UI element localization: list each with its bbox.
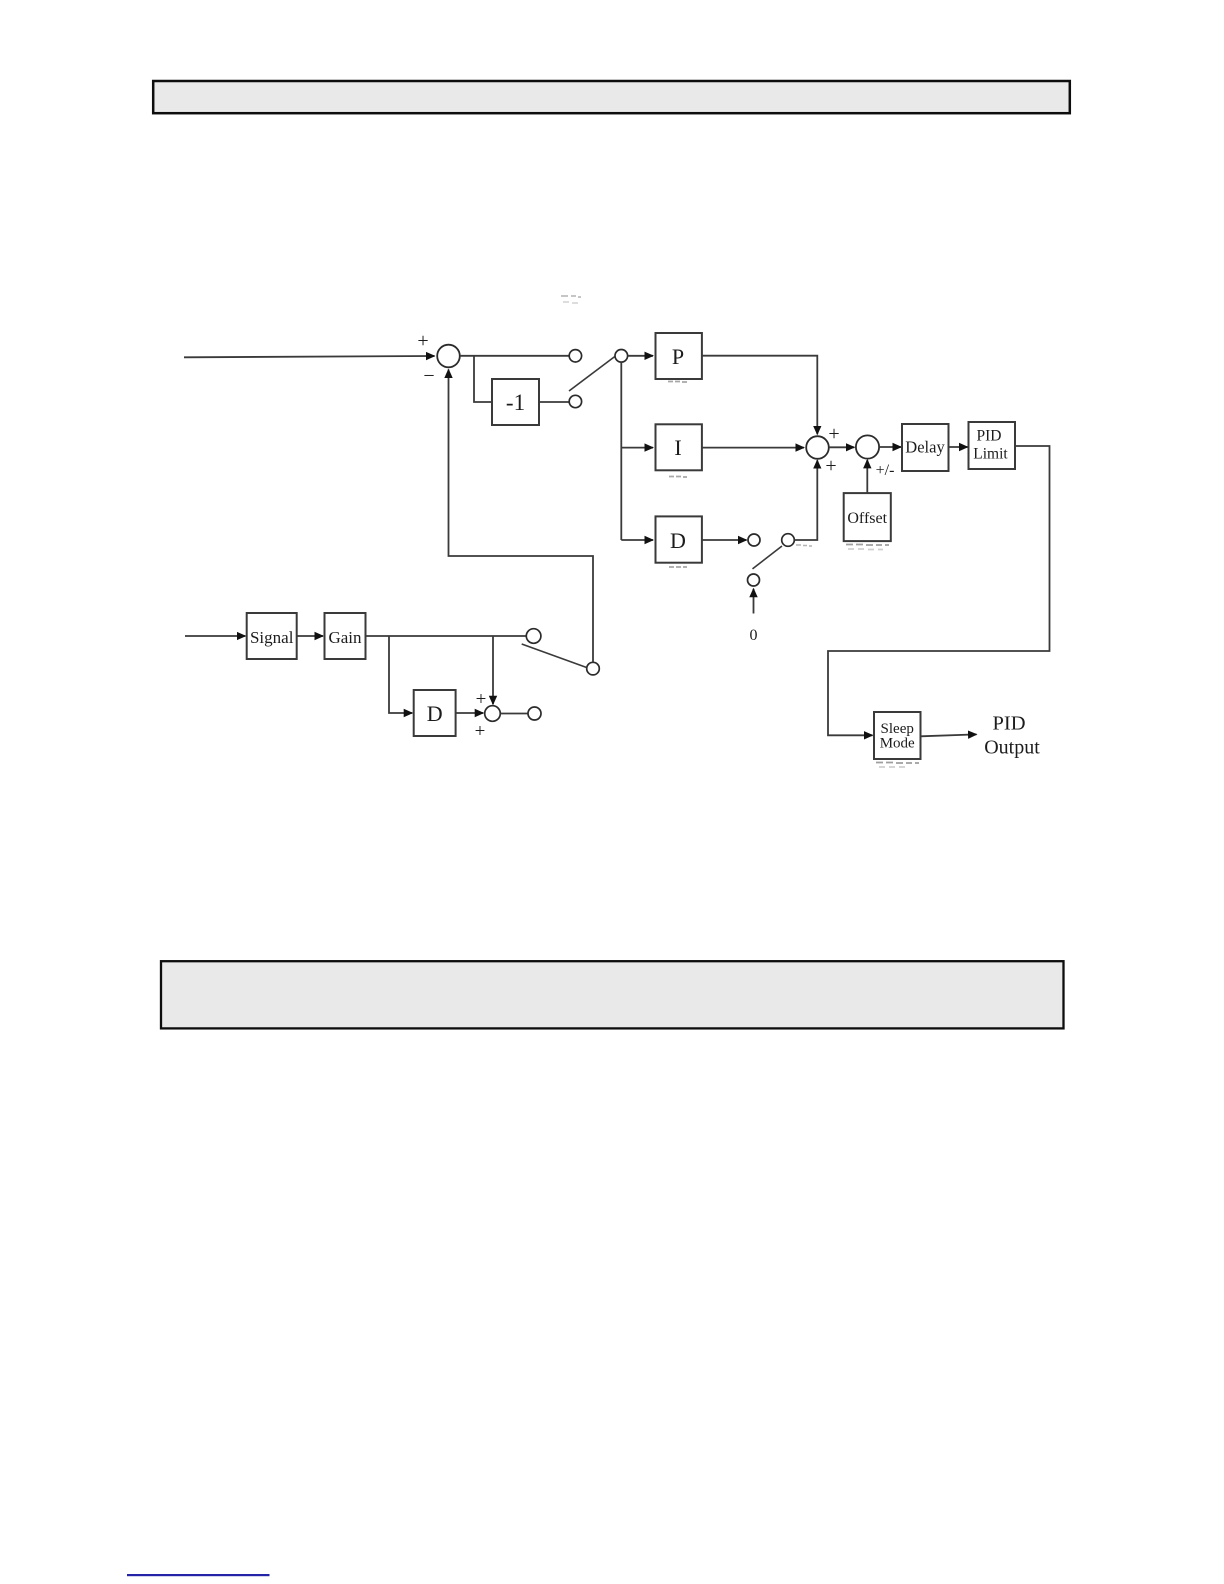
block: P (proportional) xyxy=(656,333,702,379)
switch SW3 pole xyxy=(587,662,600,675)
block: PID Limit xyxy=(969,422,1016,469)
svg-text:+: + xyxy=(828,423,839,445)
svg-text:PID: PID xyxy=(992,713,1025,735)
wire: D output to switch contact xyxy=(702,539,747,541)
wire: Sleep Mode to PID Output xyxy=(921,734,977,736)
svg-text:Gain: Gain xyxy=(328,628,362,647)
svg-text:P: P xyxy=(672,344,684,369)
svg-text:Delay: Delay xyxy=(905,438,945,457)
switch SW2 arm xyxy=(753,546,783,569)
wire: S1 output to switch contact xyxy=(460,355,569,357)
wire: feedback D to adder S4 xyxy=(456,712,484,714)
svg-text:-1: -1 xyxy=(506,390,525,415)
svg-text:D: D xyxy=(670,528,686,553)
erased label smudge above first switch xyxy=(561,296,581,303)
svg-text:Limit: Limit xyxy=(973,446,1008,463)
node: summing junction S1 xyxy=(437,345,460,368)
svg-text:0: 0 xyxy=(750,627,758,644)
block: I (integral) xyxy=(656,424,702,470)
svg-text:−: − xyxy=(423,365,434,387)
wire: bus to D block xyxy=(621,539,653,541)
wire: SW3 pole feedback up to S1 minus input xyxy=(449,370,594,663)
wire: vertical distribution bus to I and D xyxy=(620,362,622,540)
switch SW2 contact b (zero) xyxy=(748,574,760,586)
svg-text:+: + xyxy=(475,721,486,742)
svg-text:Offset: Offset xyxy=(847,510,887,527)
switch SW3 arm xyxy=(522,644,587,668)
wire: SW1 pole to P block xyxy=(628,355,653,357)
erased label smudge below Sleep Mode xyxy=(876,763,919,768)
svg-text:+/-: +/- xyxy=(876,462,895,479)
block: Delay xyxy=(902,424,949,471)
erased label smudge below I xyxy=(669,476,687,479)
svg-text:Output: Output xyxy=(984,737,1040,759)
node: adder S2 (P+I+D) xyxy=(806,436,829,459)
switch SW1 contact a (direct) xyxy=(569,350,581,362)
svg-text:PID: PID xyxy=(977,428,1002,445)
wire: SW2 pole to adder S2 bottom xyxy=(794,460,817,540)
svg-text:I: I xyxy=(674,435,681,460)
wire: S4 to switch SW3 contact b xyxy=(500,713,527,715)
node: adder S4 xyxy=(485,706,501,722)
wire: zero constant into SW2 contact b xyxy=(753,589,755,614)
wire: Gain output to switch SW3 contact a xyxy=(366,635,527,637)
wire: PID Limit output loop down to Sleep Mode xyxy=(828,446,1050,735)
erased label smudge below P xyxy=(668,381,687,384)
wire: main setpoint input line xyxy=(184,356,435,357)
block: D (feedback derivative) xyxy=(414,690,456,736)
wire: S2 to S3 xyxy=(829,446,854,448)
svg-text:+: + xyxy=(476,689,487,710)
wire: I output to adder S2 xyxy=(702,447,804,449)
switch SW3 contact b (with D) xyxy=(528,707,541,720)
svg-text:+: + xyxy=(825,455,836,477)
wire: -1 output to lower switch contact xyxy=(539,401,569,403)
erased label smudge below D xyxy=(669,566,687,568)
wire: branch down to -1 block xyxy=(474,356,492,402)
grey header bar (empty redacted text box) xyxy=(153,81,1070,113)
wire: branch down into adder S4 top xyxy=(492,636,494,704)
block: D (derivative) xyxy=(656,516,702,562)
footnote rule (blue) xyxy=(127,1574,270,1576)
switch SW1 arm xyxy=(569,357,615,392)
switch SW2 contact a (from D) xyxy=(748,534,760,546)
switch SW2 pole xyxy=(782,534,795,547)
block: Signal xyxy=(247,613,297,659)
erased label smudge right of SW2 pole xyxy=(796,545,812,546)
switch SW1 pole xyxy=(615,350,628,363)
switch SW1 contact b (inverted) xyxy=(569,395,581,407)
node: adder S3 (offset) xyxy=(856,435,879,458)
block: Offset xyxy=(844,493,891,541)
wire: Offset up into S3 xyxy=(866,460,868,493)
block: Gain xyxy=(325,613,366,659)
wire: branch down to feedback D block xyxy=(389,636,412,713)
erased label smudge below Offset xyxy=(846,545,889,550)
wire: S3 to Delay xyxy=(880,446,902,448)
svg-text:+: + xyxy=(417,330,428,352)
block: Sleep Mode xyxy=(874,712,921,759)
wire: Delay to PID Limit xyxy=(949,446,968,448)
wire: Signal to Gain xyxy=(297,635,323,637)
wire: bus to I block xyxy=(621,447,653,449)
block: inverter -1 xyxy=(492,379,539,425)
switch SW3 contact a (direct) xyxy=(526,629,541,644)
svg-text:D: D xyxy=(427,701,443,726)
wire: feedback signal input xyxy=(185,635,245,637)
grey footer note bar (empty redacted text box) xyxy=(161,961,1064,1028)
svg-text:Mode: Mode xyxy=(880,736,915,752)
svg-text:Signal: Signal xyxy=(250,628,294,647)
wire: P output over to adder S2 xyxy=(702,356,817,435)
